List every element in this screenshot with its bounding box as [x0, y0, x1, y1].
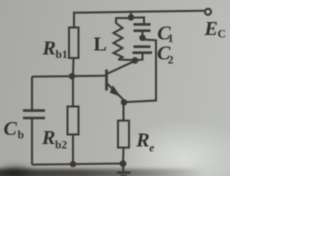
svg-text:C: C	[218, 29, 226, 41]
svg-text:R: R	[41, 127, 55, 149]
transistor emitter lead with arrow	[107, 84, 124, 100]
wire Cb to bottom rail	[31, 118, 33, 165]
label Cb	[4, 118, 25, 142]
svg-text:b2: b2	[55, 139, 67, 151]
wire emitter down to Re	[123, 102, 125, 120]
label C1	[157, 23, 174, 46]
wire tank stub from top rail	[130, 12, 132, 18]
svg-text:R: R	[135, 129, 149, 151]
svg-text:b1: b1	[56, 49, 68, 61]
label Rb2	[41, 127, 67, 151]
svg-text:C: C	[4, 118, 18, 140]
svg-text:L: L	[94, 34, 107, 56]
label C2	[157, 43, 174, 67]
wire tank top to C1	[131, 17, 144, 24]
wire base rail from Cb to transistor base	[32, 75, 106, 78]
wire Re bottom to ground node	[122, 148, 125, 164]
wire inductor bottom to tank bottom node	[118, 59, 135, 62]
wire top supply rail	[74, 11, 205, 13]
node tank top junction dot	[128, 14, 134, 20]
node emitter junction dot	[121, 99, 127, 105]
terminal E_C circle	[205, 9, 211, 15]
inductor L zigzag	[114, 18, 123, 60]
wire Rb1 bottom to base node	[72, 58, 75, 76]
node tank bottom junction dot	[132, 57, 139, 64]
resistor Rb2	[68, 107, 79, 135]
page bottom-left corner shadow	[0, 163, 36, 182]
node C1 C2 divider junction dot	[139, 35, 145, 41]
label Re	[135, 129, 154, 154]
label E_C	[204, 18, 226, 41]
wire C2 bottom to tank bottom node	[135, 53, 143, 61]
wire collector lead	[107, 61, 134, 74]
capacitor C2	[133, 47, 153, 53]
wire Cb down lead	[31, 77, 33, 111]
resistor Re	[118, 121, 129, 148]
wire tank top to inductor	[116, 17, 131, 19]
svg-text:E: E	[204, 18, 218, 40]
wire bottom rail	[32, 164, 123, 165]
resistor Rb1	[69, 28, 79, 59]
label Rb1	[42, 38, 68, 62]
svg-text:2: 2	[168, 54, 174, 66]
wire divider node to feedback line	[124, 40, 156, 103]
node Rb2 bottom rail junction dot	[70, 161, 76, 167]
node ground junction dot	[120, 160, 127, 167]
wire from rail down to Rb1	[73, 12, 75, 28]
wire base node down to Rb2	[72, 76, 74, 106]
svg-text:b: b	[18, 130, 24, 142]
capacitor C1	[134, 24, 151, 30]
wire C1 bottom to divider node	[142, 31, 144, 38]
ground	[117, 164, 131, 176]
capacitor Cb	[23, 111, 45, 118]
wire Rb2 bottom to bottom rail	[72, 135, 74, 165]
transistor base bar	[105, 70, 108, 91]
node base junction dot	[69, 73, 75, 79]
page bottom edge shadow	[0, 169, 234, 178]
svg-text:R: R	[42, 38, 56, 60]
svg-text:e: e	[149, 142, 154, 154]
